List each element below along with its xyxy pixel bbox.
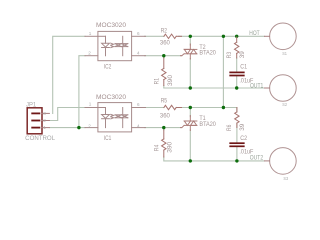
wire R4 top lead net [163,128,165,130]
wire T2 MT2 [189,36,191,45]
svg-text:6: 6 [137,31,140,36]
svg-text:MOC3020: MOC3020 [96,23,127,29]
svg-text:390: 390 [168,141,174,153]
wire T2 MT1 [189,59,191,89]
junction dot C2 / OUT2 [235,159,238,162]
svg-text:360: 360 [160,113,171,119]
wire T1 MT1 [189,130,191,161]
connector S3 [270,148,297,175]
wire JP1 pin3 to IC2 pin1 [53,36,85,113]
wire IC2 pin4 gate net [145,55,181,57]
svg-text:R6: R6 [227,124,233,131]
junction dot T2 MT1 / OUT1 [189,86,192,89]
wire OUT1 rail [164,86,265,89]
svg-text:IC2: IC2 [104,65,112,71]
wire HOT2 rail [145,107,164,109]
svg-text:R1: R1 [155,77,161,84]
svg-text:1: 1 [89,31,92,36]
svg-text:MOC3020: MOC3020 [96,95,127,101]
wire C1 to OUT1 [236,76,238,88]
transistor T1 triac BTA20 [181,116,197,131]
svg-text:BTA20: BTA20 [199,51,216,57]
junction dot R3 top [235,35,238,38]
svg-text:6: 6 [137,102,140,107]
wire common vertical to IC2 pin2 [79,56,85,128]
svg-text:39: 39 [240,51,246,59]
junction dot gate1 / R1 [162,54,165,57]
wire JP1 pin2 to IC1 pin1 [49,108,85,121]
svg-text:3: 3 [43,111,46,116]
wire C2 to OUT2 [236,148,238,161]
svg-text:OUT1: OUT1 [250,84,264,90]
svg-text:2: 2 [88,123,91,128]
svg-text:1: 1 [89,102,92,107]
resistor R6 [235,108,239,128]
svg-text:R2: R2 [161,28,168,34]
junction dot JP1 pin1 / common [77,126,80,129]
svg-text:OUT2: OUT2 [250,156,264,162]
resistor R2 [164,34,182,38]
svg-text:C2: C2 [240,136,247,142]
junction dot HOT2 tap [222,106,225,109]
junction dot gate2 / R4 [162,126,165,129]
svg-text:R5: R5 [161,98,168,104]
connector JP1 [27,108,42,134]
op-amp IC2 optocoupler MOC3020 [85,31,146,60]
svg-text:S1: S1 [282,51,287,56]
svg-text:R3: R3 [227,51,233,58]
resistor R1 [162,58,166,86]
wire OUT2 rail [164,157,265,161]
svg-text:390: 390 [168,74,174,86]
junction dot C1 / OUT1 [235,86,238,89]
capacitor C2 [230,143,244,146]
svg-text:360: 360 [160,40,171,46]
svg-text:JP1: JP1 [26,102,37,108]
wire HOT vertical feed to lower section [222,36,224,107]
wire HOT top rail [179,35,265,37]
connector S1 [270,23,297,50]
junction dot T1 MT1 / OUT2 [189,159,192,162]
resistor R3 [235,37,239,58]
junction dot R2/T2 HOT [189,35,192,38]
svg-text:HOT: HOT [249,31,260,37]
svg-text:2: 2 [88,51,91,56]
svg-text:1: 1 [43,125,46,130]
svg-text:S3: S3 [283,176,288,181]
junction dot T1 MT2 / HOT2 [189,106,192,109]
svg-text:.01uF: .01uF [239,149,253,155]
svg-text:IC1: IC1 [104,136,112,142]
wire R1 top lead net [163,56,165,58]
svg-text:S2: S2 [282,102,287,107]
wire JP1 pin1 common rail [49,127,85,129]
wire R5 to T1 junction to R6 [179,108,237,112]
wire R3 C1 link [236,58,238,72]
svg-text:BTA20: BTA20 [199,122,216,128]
resistor R5 [164,105,182,109]
wire T1 MT2 [189,108,191,117]
wire IC1 pin4 gate2 net [145,127,181,129]
svg-text:C1: C1 [240,65,247,71]
wire R6 C2 link [236,123,238,142]
svg-text:4: 4 [137,124,140,129]
svg-text:39: 39 [240,123,246,131]
svg-text:CONTROL: CONTROL [25,136,55,142]
transistor T2 triac BTA20 [181,44,197,59]
wire IC2 pin6 to R2 [145,35,164,37]
connector S2 [270,75,297,102]
svg-text:2: 2 [43,118,46,123]
op-amp IC1 optocoupler MOC3020 [85,103,146,132]
capacitor C1 [230,72,244,75]
svg-text:4: 4 [137,51,140,56]
svg-text:R4: R4 [155,144,161,151]
junction dot HOT vertical tap [222,35,225,38]
resistor R4 [162,130,166,157]
